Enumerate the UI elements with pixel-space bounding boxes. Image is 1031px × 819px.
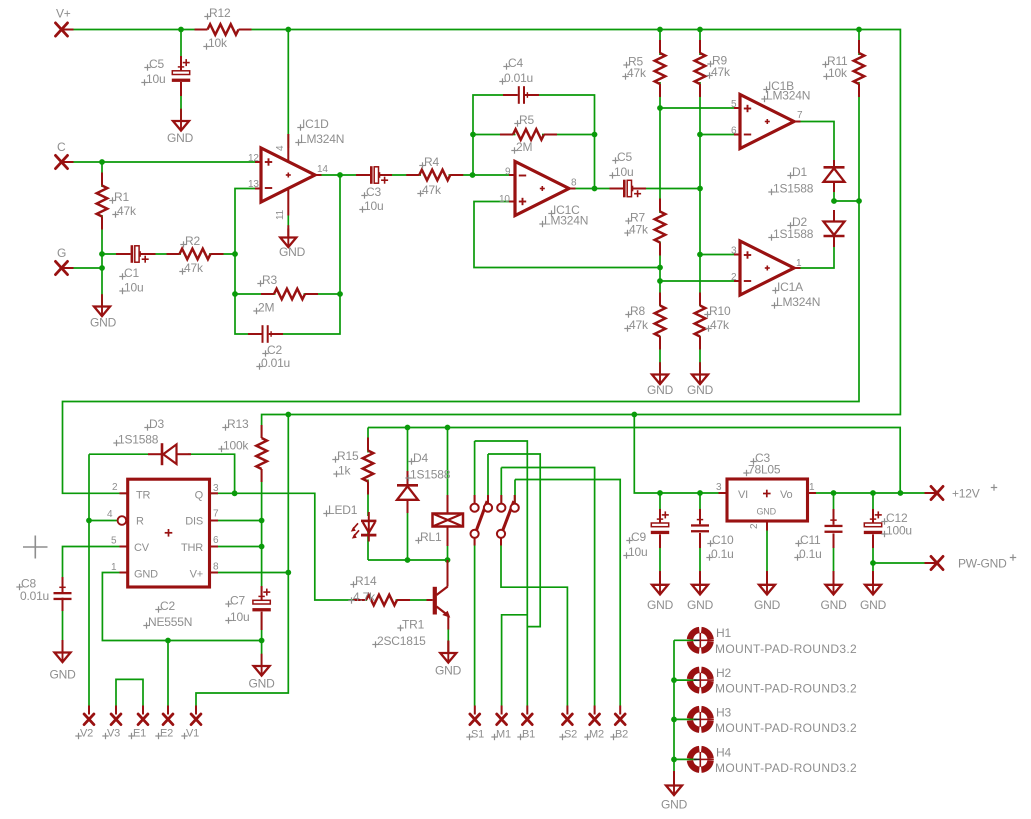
svg-text:13: 13 <box>248 179 259 190</box>
svg-text:10k: 10k <box>208 36 228 50</box>
svg-text:11: 11 <box>275 209 286 220</box>
svg-text:RL1: RL1 <box>420 530 442 544</box>
svg-text:GND: GND <box>860 598 887 612</box>
svg-text:R13: R13 <box>227 417 249 431</box>
svg-text:GND: GND <box>687 598 714 612</box>
svg-text:R8: R8 <box>630 304 645 318</box>
svg-text:D4: D4 <box>413 451 428 465</box>
svg-text:2: 2 <box>731 272 737 283</box>
svg-text:+12V: +12V <box>952 487 980 501</box>
svg-text:TR: TR <box>136 490 151 502</box>
svg-text:M1: M1 <box>496 729 511 741</box>
svg-text:GND: GND <box>435 664 462 678</box>
svg-text:B1: B1 <box>522 729 535 741</box>
svg-text:LM324N: LM324N <box>544 214 588 228</box>
svg-text:R: R <box>136 516 144 528</box>
svg-text:3: 3 <box>716 482 722 493</box>
svg-text:8: 8 <box>213 562 219 573</box>
svg-text:IC1A: IC1A <box>777 280 803 294</box>
svg-text:1: 1 <box>809 482 815 493</box>
svg-text:GND: GND <box>687 383 714 397</box>
svg-text:C4: C4 <box>508 56 523 70</box>
svg-text:1k: 1k <box>338 464 351 478</box>
svg-text:47k: 47k <box>629 223 649 237</box>
svg-text:6: 6 <box>213 535 219 546</box>
svg-text:7: 7 <box>213 509 219 520</box>
svg-text:C2: C2 <box>160 599 175 613</box>
svg-text:100k: 100k <box>223 439 249 453</box>
svg-text:3: 3 <box>731 246 737 257</box>
svg-text:47k: 47k <box>627 66 647 80</box>
svg-text:H1: H1 <box>716 626 731 640</box>
svg-text:V+: V+ <box>190 569 203 581</box>
svg-text:4: 4 <box>107 509 113 520</box>
svg-text:GND: GND <box>661 798 688 812</box>
svg-text:GND: GND <box>757 507 777 517</box>
svg-text:1S1588: 1S1588 <box>118 433 159 447</box>
svg-text:0.01u: 0.01u <box>20 589 49 603</box>
svg-text:0.1u: 0.1u <box>799 547 822 561</box>
svg-text:DIS: DIS <box>185 516 203 528</box>
svg-text:CV: CV <box>134 542 150 554</box>
svg-text:C2: C2 <box>267 343 282 357</box>
svg-text:D1: D1 <box>792 165 807 179</box>
svg-text:GND: GND <box>249 677 276 691</box>
svg-text:E1: E1 <box>133 728 146 740</box>
svg-text:100u: 100u <box>886 524 912 538</box>
svg-text:GND: GND <box>647 598 674 612</box>
svg-text:MOUNT-PAD-ROUND3.2: MOUNT-PAD-ROUND3.2 <box>715 761 857 775</box>
svg-text:4.7k: 4.7k <box>353 590 376 604</box>
svg-text:R1: R1 <box>114 190 129 204</box>
svg-text:C9: C9 <box>631 530 646 544</box>
svg-text:2: 2 <box>112 482 118 493</box>
svg-text:10u: 10u <box>230 610 249 624</box>
svg-text:H2: H2 <box>716 666 731 680</box>
svg-text:9: 9 <box>505 167 511 178</box>
svg-text:10u: 10u <box>628 545 647 559</box>
svg-text:V2: V2 <box>80 728 93 740</box>
svg-text:10u: 10u <box>146 72 165 86</box>
svg-text:C10: C10 <box>712 533 734 547</box>
svg-text:2: 2 <box>749 523 760 529</box>
svg-text:LM324N: LM324N <box>766 89 810 103</box>
svg-text:2M: 2M <box>516 140 532 154</box>
svg-text:10: 10 <box>499 194 510 205</box>
svg-text:1S1588: 1S1588 <box>773 182 814 196</box>
svg-text:S1: S1 <box>471 729 484 741</box>
svg-text:Vo: Vo <box>780 489 793 501</box>
svg-text:2SC1815: 2SC1815 <box>377 634 426 648</box>
svg-text:3: 3 <box>213 483 219 494</box>
svg-text:C11: C11 <box>800 533 821 547</box>
svg-text:IC1D: IC1D <box>302 117 329 131</box>
svg-text:Q: Q <box>195 490 204 502</box>
svg-text:4: 4 <box>275 145 286 151</box>
svg-text:R14: R14 <box>355 574 377 588</box>
svg-text:GND: GND <box>821 598 848 612</box>
svg-text:B2: B2 <box>615 729 628 741</box>
svg-text:V1: V1 <box>186 728 199 740</box>
svg-text:1S1588: 1S1588 <box>773 227 814 241</box>
svg-text:MOUNT-PAD-ROUND3.2: MOUNT-PAD-ROUND3.2 <box>715 642 857 656</box>
svg-text:R15: R15 <box>337 449 359 463</box>
svg-text:47k: 47k <box>184 261 204 275</box>
svg-text:H3: H3 <box>716 706 731 720</box>
svg-text:LED1: LED1 <box>328 503 358 517</box>
svg-text:0.01u: 0.01u <box>504 71 533 85</box>
svg-text:D3: D3 <box>149 417 164 431</box>
svg-text:PW-GND: PW-GND <box>958 557 1007 571</box>
svg-text:10u: 10u <box>364 199 383 213</box>
svg-text:G: G <box>57 246 66 260</box>
svg-text:M2: M2 <box>589 729 604 741</box>
svg-text:10u: 10u <box>614 165 633 179</box>
svg-text:47k: 47k <box>422 183 442 197</box>
svg-text:6: 6 <box>731 126 737 137</box>
svg-text:GND: GND <box>90 316 117 330</box>
svg-text:12: 12 <box>248 153 259 164</box>
svg-text:47k: 47k <box>117 204 137 218</box>
svg-text:10u: 10u <box>124 281 143 295</box>
svg-text:GND: GND <box>167 131 194 145</box>
svg-text:H4: H4 <box>716 746 731 760</box>
svg-text:47k: 47k <box>710 318 730 332</box>
svg-text:47k: 47k <box>629 318 649 332</box>
svg-text:R3: R3 <box>262 273 277 287</box>
svg-text:E2: E2 <box>160 728 173 740</box>
svg-text:1: 1 <box>111 562 117 573</box>
svg-text:V3: V3 <box>107 728 120 740</box>
svg-text:14: 14 <box>317 164 328 175</box>
svg-text:78L05: 78L05 <box>748 463 781 477</box>
svg-text:7: 7 <box>797 110 803 121</box>
svg-text:5: 5 <box>731 99 737 110</box>
svg-text:R5: R5 <box>519 113 534 127</box>
svg-text:LM324N: LM324N <box>776 295 820 309</box>
svg-text:TR1: TR1 <box>402 618 425 632</box>
svg-text:MOUNT-PAD-ROUND3.2: MOUNT-PAD-ROUND3.2 <box>715 682 857 696</box>
svg-text:GND: GND <box>647 383 674 397</box>
svg-text:C1: C1 <box>124 266 139 280</box>
svg-text:R10: R10 <box>709 304 731 318</box>
svg-text:R12: R12 <box>209 6 231 20</box>
svg-text:C5: C5 <box>617 150 632 164</box>
svg-text:10k: 10k <box>828 66 848 80</box>
svg-text:1S1588: 1S1588 <box>410 468 451 482</box>
svg-text:0.01u: 0.01u <box>261 356 290 370</box>
svg-text:NE555N: NE555N <box>148 615 192 629</box>
svg-text:S2: S2 <box>564 729 577 741</box>
svg-text:8: 8 <box>571 178 577 189</box>
svg-text:C3: C3 <box>366 185 381 199</box>
svg-text:LM324N: LM324N <box>300 132 344 146</box>
svg-text:MOUNT-PAD-ROUND3.2: MOUNT-PAD-ROUND3.2 <box>715 721 857 735</box>
svg-text:GND: GND <box>134 569 158 581</box>
svg-text:1: 1 <box>796 258 802 269</box>
svg-text:R2: R2 <box>185 234 200 248</box>
svg-text:VI: VI <box>738 489 748 501</box>
svg-text:0.1u: 0.1u <box>711 547 734 561</box>
svg-text:5: 5 <box>111 536 117 547</box>
svg-text:GND: GND <box>50 668 77 682</box>
svg-text:R4: R4 <box>424 155 439 169</box>
svg-text:V+: V+ <box>56 7 71 21</box>
svg-text:C: C <box>57 140 66 154</box>
svg-text:GND: GND <box>754 598 781 612</box>
svg-text:2M: 2M <box>258 301 274 315</box>
svg-text:C5: C5 <box>149 57 164 71</box>
svg-text:C7: C7 <box>230 594 245 608</box>
svg-text:47k: 47k <box>711 65 731 79</box>
svg-text:THR: THR <box>181 542 203 554</box>
svg-text:GND: GND <box>279 245 306 259</box>
